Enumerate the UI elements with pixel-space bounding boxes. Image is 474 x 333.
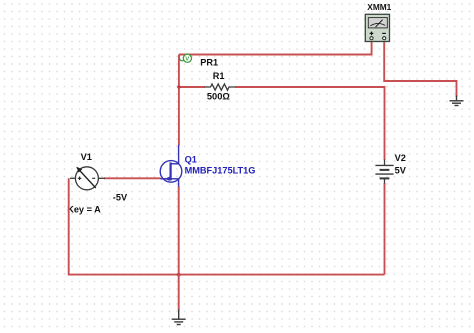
- wire: XMM1 - terminal down, right to ground: [384, 42, 456, 97]
- svg-text:XMM1: XMM1: [367, 2, 391, 12]
- battery V2: [375, 153, 406, 183]
- wire: Q1 source down through junction to ground: [178, 186, 180, 311]
- wire: V1 left corner down and bottom run to V2: [69, 178, 385, 274]
- svg-text:PR1: PR1: [200, 58, 218, 68]
- multimeter XMM1: [365, 2, 391, 41]
- junction (node at bottom run / source wire): [177, 273, 181, 277]
- wire: junction to R1 left lead: [179, 86, 205, 88]
- wire: top horizontal from PR1 corner to XMM1 + terminal: [179, 42, 372, 55]
- svg-text:500Ω: 500Ω: [207, 92, 231, 102]
- svg-text:MMBFJ175LT1G: MMBFJ175LT1G: [185, 166, 256, 176]
- svg-text:Q1: Q1: [185, 154, 197, 164]
- svg-text:-5V: -5V: [113, 192, 128, 202]
- wire: vertical from top corner down to Q1 drain: [178, 55, 180, 146]
- wire: V1 right pin to Q1 gate: [104, 177, 161, 179]
- svg-text:V: V: [185, 57, 189, 63]
- svg-text:R1: R1: [213, 71, 225, 81]
- junction (node at R1 / drain wire): [177, 85, 180, 88]
- svg-text:V1: V1: [81, 152, 92, 162]
- transistor Q1 (p-channel JFET): [160, 145, 255, 187]
- source V1: [67, 152, 128, 214]
- ground (bottom, Q1 source): [172, 310, 186, 325]
- svg-text:Key = A: Key = A: [67, 205, 101, 215]
- svg-text:V2: V2: [395, 153, 406, 163]
- wire: V2 bottom vertical: [384, 183, 386, 275]
- probe PR1: [179, 54, 218, 67]
- wire: R1 right lead to corner, down to V2: [236, 87, 385, 160]
- ground (right, XMM1): [450, 96, 464, 106]
- resistor R1: [205, 71, 237, 101]
- svg-text:5V: 5V: [395, 166, 407, 176]
